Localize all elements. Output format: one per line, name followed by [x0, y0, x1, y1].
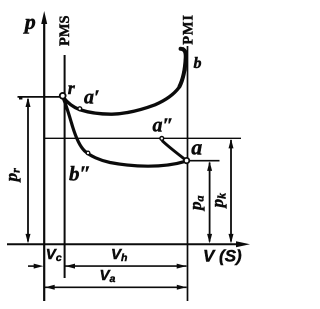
- recovery segment a'' to a: [162, 141, 186, 160]
- V axis arrowhead: [236, 241, 250, 247]
- p_a top arrowhead: [207, 161, 212, 171]
- horizontal reference line at r level: [19, 98, 22, 100]
- p_k bottom arrowhead: [229, 234, 234, 244]
- exhaust/expansion curve b to r: [63, 48, 186, 114]
- V_a dimension line: [45, 286, 187, 288]
- svg-text:p: p: [23, 9, 36, 34]
- exhaust curve steep section near b (thicker): [180, 49, 186, 87]
- V_a right arrowhead: [177, 285, 187, 290]
- V axis (horizontal): [7, 243, 244, 245]
- p_k label (rotated): [208, 193, 229, 210]
- svg-text:b″: b″: [69, 162, 91, 186]
- svg-text:b: b: [194, 55, 202, 72]
- svg-text:r: r: [68, 78, 76, 98]
- p_k dimension line: [230, 140, 232, 242]
- svg-text:a′: a′: [84, 86, 100, 108]
- p_r dimension line: [27, 99, 29, 242]
- p_r label (rotated): [2, 168, 23, 184]
- node a: [184, 158, 189, 163]
- node b'': [86, 151, 90, 155]
- PMS line (vertical at top dead center): [64, 55, 66, 278]
- svg-text:PMS: PMS: [57, 15, 73, 46]
- p_k top arrowhead: [229, 139, 234, 149]
- V_h dimension line: [65, 265, 186, 267]
- p axis (vertical): [43, 18, 45, 301]
- intake curve r to a: [63, 98, 186, 167]
- svg-text:V (S): V (S): [203, 247, 242, 266]
- svg-text:a: a: [191, 134, 202, 159]
- V_a left arrowhead: [45, 285, 55, 290]
- svg-text:a″: a″: [153, 115, 174, 137]
- horizontal reference line at a level: [187, 160, 220, 162]
- V_h left arrowhead: [65, 264, 75, 269]
- V_h right arrowhead: [177, 264, 187, 269]
- p_a bottom arrowhead: [207, 234, 212, 244]
- node a': [78, 107, 82, 111]
- p_r top arrowhead: [26, 97, 31, 107]
- V_c left approach arrow: [28, 265, 34, 267]
- node a'': [160, 137, 164, 141]
- node r: [60, 93, 66, 99]
- p_a dimension line: [209, 163, 211, 242]
- svg-text:PMI: PMI: [181, 14, 197, 45]
- p_r bottom arrowhead: [26, 234, 31, 244]
- p axis arrowhead: [41, 11, 47, 24]
- PMI line (vertical at bottom dead center): [187, 46, 189, 301]
- horizontal reference line at p_k level: [44, 137, 241, 139]
- p_a label (rotated): [186, 196, 207, 213]
